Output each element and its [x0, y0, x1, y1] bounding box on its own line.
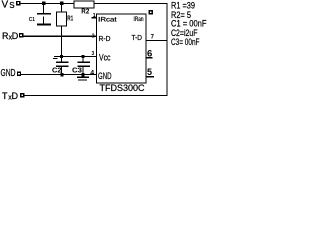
node junction dot C1 tap — [42, 2, 45, 5]
node TxD terminal label — [2, 91, 19, 102]
op-amp U1 IC body TFDS3000 — [97, 14, 147, 83]
node VS terminal square — [16, 1, 21, 6]
svg-text:C1: C1 — [29, 17, 35, 23]
capacitor C1 bottom stem — [43, 16, 44, 23]
ground bar under C1 — [37, 24, 51, 26]
wire right vertical from top rail to bottom rail — [167, 3, 168, 96]
capacitor C1 top stem — [43, 3, 44, 13]
wire Vcc rail to IC pin 3 — [54, 56, 97, 57]
wire R1 bottom stem down to Vcc node — [61, 26, 62, 56]
node junction dot C2 top — [60, 55, 63, 58]
svg-text:IRcat: IRcat — [98, 18, 117, 24]
capacitor C2 top stem — [61, 57, 62, 62]
pin 5 stub — [146, 76, 154, 77]
svg-text:Vcc: Vcc — [99, 52, 111, 62]
wire RxD to IC pin 2 — [23, 36, 96, 37]
resistor R2 body — [74, 1, 94, 8]
node RxD terminal square — [19, 33, 24, 37]
resistor R1 body — [57, 12, 67, 26]
wire GND rail to IC pin 4 — [21, 74, 96, 75]
polarity minus mark for C2 — [53, 58, 58, 59]
svg-text:TFDS300C: TFDS300C — [100, 83, 145, 93]
svg-text:D: D — [12, 91, 19, 101]
svg-text:D: D — [12, 31, 19, 41]
node TxD terminal square — [20, 93, 25, 98]
ground symbol below GND rail — [82, 76, 83, 78]
resistor R1 top stem — [61, 3, 62, 12]
node GND terminal square — [17, 72, 21, 77]
pin 6 stub — [146, 57, 153, 58]
wire VS top rail right segment (after R2) — [94, 3, 168, 4]
capacitor C2 top plate — [56, 62, 69, 63]
capacitor C2 bottom plate — [56, 66, 69, 67]
pin 8 terminal square on IC top right — [148, 10, 152, 14]
svg-text:R-D: R-D — [99, 34, 112, 43]
svg-text:C3= 00nF: C3= 00nF — [171, 37, 200, 48]
svg-text:5: 5 — [147, 67, 152, 77]
svg-text:3: 3 — [92, 51, 95, 57]
node RxD terminal label — [2, 31, 19, 42]
svg-text:C3: C3 — [72, 65, 82, 74]
svg-text:T: T — [2, 91, 8, 101]
svg-text:C2: C2 — [52, 65, 62, 74]
pin 1 stub — [92, 17, 97, 18]
capacitor C3 top plate — [78, 62, 91, 63]
svg-text:V: V — [2, 0, 9, 11]
node junction dot C3 top — [81, 55, 84, 58]
capacitor C1 top plate — [37, 13, 51, 14]
capacitor C3 bottom plate — [78, 66, 91, 67]
node junction dot C3 bottom — [81, 73, 84, 76]
capacitor C3 bottom stem — [83, 67, 84, 74]
node junction dot R1 tap — [60, 2, 63, 5]
svg-text:GND: GND — [98, 71, 112, 81]
wire TxD bottom rail — [25, 95, 167, 96]
svg-text:T-D: T-D — [132, 33, 143, 42]
node VS terminal label — [2, 0, 15, 11]
capacitor C2 bottom stem — [61, 67, 62, 74]
svg-text:GND: GND — [1, 68, 16, 79]
svg-text:R2: R2 — [81, 9, 89, 16]
svg-text:S: S — [9, 1, 14, 10]
wire VS top rail left segment — [21, 3, 74, 4]
svg-text:4: 4 — [90, 70, 94, 77]
capacitor C3 top stem — [83, 57, 84, 62]
svg-text:R1: R1 — [67, 16, 73, 23]
node junction dot C2 bottom — [60, 73, 63, 76]
svg-text:IRan: IRan — [134, 17, 144, 23]
wire IC pin 7 TxD to right vertical — [146, 40, 167, 41]
svg-text:2: 2 — [92, 33, 95, 39]
